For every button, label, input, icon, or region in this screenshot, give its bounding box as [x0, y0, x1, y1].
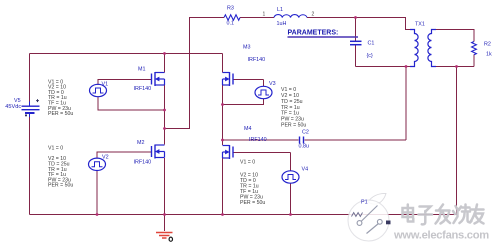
- svg-text:2: 2: [312, 12, 315, 18]
- svg-text:C2: C2: [302, 130, 309, 136]
- svg-text:M3: M3: [243, 45, 251, 51]
- svg-text:{c}: {c}: [367, 53, 373, 59]
- svg-text:P1: P1: [361, 200, 368, 206]
- svg-text:1uH: 1uH: [277, 21, 287, 27]
- svg-text:IRF140: IRF140: [249, 137, 267, 143]
- svg-text:0.1: 0.1: [227, 21, 235, 27]
- svg-text:V1 = 0: V1 = 0: [48, 145, 63, 151]
- svg-text:M1: M1: [138, 67, 146, 73]
- svg-text:V2: V2: [102, 155, 109, 161]
- svg-text:www.elecfans.com: www.elecfans.com: [393, 230, 489, 242]
- svg-text:M4: M4: [244, 126, 252, 132]
- svg-text:L1: L1: [277, 7, 283, 13]
- svg-text:1k: 1k: [486, 52, 492, 58]
- svg-text:IRF140: IRF140: [134, 86, 152, 92]
- svg-text:V1 = 0: V1 = 0: [240, 160, 255, 166]
- svg-text:R3: R3: [227, 6, 234, 12]
- svg-text:IRF140: IRF140: [248, 57, 266, 63]
- svg-text:PER = 50u: PER = 50u: [48, 111, 73, 117]
- svg-text:0.8u: 0.8u: [299, 144, 310, 150]
- svg-text:IRF140: IRF140: [134, 160, 152, 166]
- svg-text:TX1: TX1: [415, 22, 425, 28]
- svg-text:1: 1: [263, 12, 266, 18]
- svg-text:V1: V1: [102, 82, 109, 88]
- svg-text:PARAMETERS:: PARAMETERS:: [288, 30, 339, 37]
- svg-text:V3: V3: [269, 81, 276, 87]
- svg-text:PER = 50u: PER = 50u: [48, 183, 73, 189]
- svg-text:45Vdc: 45Vdc: [5, 104, 21, 110]
- svg-text:PER = 50u: PER = 50u: [240, 200, 265, 206]
- svg-text:M2: M2: [137, 140, 145, 146]
- svg-text:C1: C1: [368, 41, 375, 47]
- svg-text:V4: V4: [302, 167, 309, 173]
- svg-text:R2: R2: [484, 42, 491, 48]
- svg-text:PER = 50u: PER = 50u: [281, 123, 306, 129]
